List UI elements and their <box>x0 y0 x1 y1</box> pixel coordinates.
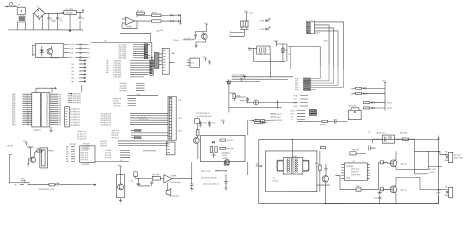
VCC arrow <box>382 80 387 85</box>
svg-text:SW: SW <box>21 178 24 180</box>
svg-text:VCC: VCC <box>220 120 225 122</box>
wire: gate feed vertical <box>378 162 389 189</box>
resistor R31 row <box>220 139 234 142</box>
wire: left loop <box>9 154 30 183</box>
svg-text:PWR LED: PWR LED <box>240 100 249 102</box>
svg-text:LM358: LM358 <box>126 26 132 28</box>
svg-text:P16: P16 <box>294 95 297 97</box>
oscillator box Y1 <box>248 46 270 61</box>
svg-text:G0 RD0: G0 RD0 <box>69 144 76 146</box>
svg-text:.1u: .1u <box>59 21 62 23</box>
svg-text:R34: R34 <box>315 163 318 165</box>
svg-text:SNUB C14: SNUB C14 <box>376 132 385 134</box>
capacitor C18 <box>224 174 227 190</box>
transformer T2 <box>273 139 309 183</box>
junction marks Q2 <box>240 29 249 33</box>
resistor R6 <box>282 48 291 56</box>
diode D2 <box>171 14 178 16</box>
svg-text:N5: N5 <box>106 72 108 74</box>
svg-text:12M: 12M <box>248 50 252 52</box>
wire: long row to relay coil <box>297 120 347 122</box>
optocoupler U3 <box>32 43 63 59</box>
text block inside sensor box <box>221 153 229 160</box>
svg-text:C9: C9 <box>288 54 290 56</box>
net label rows block E with bus to connector <box>100 112 168 126</box>
svg-text:F1: F1 <box>18 4 20 6</box>
net rows below sensor box <box>201 170 227 185</box>
svg-text:R39: R39 <box>356 186 359 188</box>
resistor R1 <box>137 10 145 17</box>
svg-text:VREF GND: VREF GND <box>351 174 361 176</box>
svg-text:C10: C10 <box>203 122 206 124</box>
svg-text:LED1: LED1 <box>260 20 265 22</box>
MOSFET Q8 <box>382 177 406 203</box>
svg-text:R32 10k: R32 10k <box>226 148 233 150</box>
wire: osc bottom <box>253 54 285 77</box>
svg-text:IRFZ44: IRFZ44 <box>400 190 406 192</box>
svg-text:PWM: PWM <box>346 178 351 180</box>
wire: bridge left vertex <box>33 12 34 14</box>
contact row <box>249 119 270 125</box>
svg-text:BL: BL <box>121 160 123 162</box>
row: R10 + D10 <box>363 101 391 104</box>
ground <box>179 23 182 25</box>
connector J5 <box>40 148 54 168</box>
wire: bundle from connector <box>314 22 343 70</box>
wire: bridge bottom to rail <box>38 19 40 21</box>
capacitor C4 <box>194 35 197 39</box>
wire <box>161 15 171 21</box>
label: DC input <box>428 167 442 174</box>
svg-text:K2: K2 <box>351 94 353 96</box>
capacitor C13 <box>369 146 376 151</box>
svg-text:T0: T0 <box>290 116 292 118</box>
svg-text:INT1: INT1 <box>290 113 294 115</box>
wire: enclosure top edge <box>120 33 151 42</box>
wires into connector J2 <box>147 45 175 65</box>
svg-text:AT89C51: AT89C51 <box>33 129 41 132</box>
resistor R32 row <box>220 147 234 150</box>
net label rows block H <box>105 150 156 159</box>
wire: bracket <box>196 27 207 35</box>
wire: bundle bends to pin rows <box>291 47 344 90</box>
MCU left pins <box>22 94 31 124</box>
wire: crystal to XTAL pins <box>288 40 328 66</box>
svg-text:LM386: LM386 <box>170 175 176 177</box>
resistor R35b top <box>320 147 325 149</box>
fuse holder box <box>17 7 25 14</box>
svg-text:VCC: VCC <box>28 146 33 148</box>
wire: bottom rail <box>324 196 439 203</box>
svg-text:T3: T3 <box>368 132 370 134</box>
svg-text:RV1: RV1 <box>191 63 195 65</box>
svg-text:17: 17 <box>27 124 29 126</box>
VCC arrow <box>274 40 279 44</box>
svg-text:AUDIO AMP: AUDIO AMP <box>170 181 181 184</box>
resistor R37 gate <box>380 161 383 164</box>
MOSFET Q7 <box>382 151 406 169</box>
wire: bridge right leg <box>42 16 44 29</box>
svg-text:E3 RB3 K3: E3 RB3 K3 <box>70 117 79 119</box>
wire: op-amp feedback loop <box>122 19 137 29</box>
node box N1 <box>195 119 200 124</box>
ground: MOSFET source <box>378 191 382 195</box>
terminal J7 <box>436 186 452 198</box>
VCC arrow bottom-left <box>6 141 34 149</box>
resistor R3 <box>152 20 164 33</box>
connector J1 <box>307 21 321 34</box>
svg-text:C13: C13 <box>372 148 375 150</box>
wire: vertical junction <box>277 100 279 109</box>
row: R11 + D11 <box>363 107 391 110</box>
MCU pin rows upper <box>295 78 311 91</box>
wire: amp input row <box>136 178 153 180</box>
net label rows M0-M6 <box>66 147 75 163</box>
svg-text:BAT-: BAT- <box>436 191 440 194</box>
svg-text:TH SENSOR OUT: TH SENSOR OUT <box>196 116 212 118</box>
resistor R2 <box>152 12 162 16</box>
svg-text:C6: C6 <box>130 181 132 183</box>
svg-text:D6 DTR0: D6 DTR0 <box>118 58 126 60</box>
capacitor C2 <box>56 13 62 30</box>
svg-text:C11: C11 <box>212 122 215 124</box>
svg-text:DC-12V: DC-12V <box>429 169 436 171</box>
svg-text:COMP IN: COMP IN <box>351 171 360 173</box>
row: R9 + D9 <box>351 92 386 95</box>
svg-text:U1 7805: U1 7805 <box>66 9 73 11</box>
capacitor C17 at output <box>190 162 194 191</box>
transistor Q9 <box>193 136 199 144</box>
svg-text:AC OUT: AC OUT <box>454 154 462 157</box>
svg-text:K1: K1 <box>351 88 353 90</box>
wire: transformer leads <box>277 139 309 170</box>
resistor R36 top <box>400 132 409 140</box>
MCU left pin labels <box>12 94 17 126</box>
resistor R38 gate <box>380 188 383 191</box>
resistor R22 stub <box>21 178 25 182</box>
svg-text:S1: S1 <box>88 57 90 59</box>
svg-text:POWER SW 1A 5V: POWER SW 1A 5V <box>38 188 55 191</box>
svg-text:JP2: JP2 <box>178 118 181 120</box>
svg-text:LCD1602: LCD1602 <box>81 164 89 166</box>
resistor R25 <box>152 174 160 180</box>
svg-text:VCC: VCC <box>23 141 28 143</box>
VCC arrow <box>204 23 209 27</box>
svg-text:CON4: CON4 <box>315 33 320 35</box>
MCU U5 body <box>32 93 50 132</box>
wire: vertical mid <box>247 120 249 175</box>
svg-text:220V 50Hz: 220V 50Hz <box>454 158 463 160</box>
J4 label rows <box>70 109 79 127</box>
wire: backlight row BL <box>95 160 129 162</box>
svg-text:KEY IN 5: KEY IN 5 <box>80 159 88 161</box>
svg-text:B12 S2: B12 S2 <box>100 146 106 148</box>
capacitor C3 <box>79 9 85 20</box>
svg-text:1000u: 1000u <box>51 21 56 23</box>
ground <box>119 198 122 203</box>
row: resistor + diode right of box top <box>255 119 268 123</box>
VCC arrow <box>117 165 122 170</box>
capacitor C6 <box>137 178 150 186</box>
svg-text:OUT2 N11 SENSE: OUT2 N11 SENSE <box>201 177 218 179</box>
wire: bottom rail <box>8 29 83 30</box>
svg-text:R2 1k: R2 1k <box>152 12 157 14</box>
ground <box>27 163 30 166</box>
resistor R29 <box>210 146 212 152</box>
svg-text:JP1: JP1 <box>178 100 181 102</box>
wire <box>197 143 199 159</box>
svg-text:P15: P15 <box>295 89 298 91</box>
svg-text:U8: U8 <box>352 161 354 163</box>
svg-text:DB9: DB9 <box>171 53 175 55</box>
svg-text:VCC: VCC <box>274 40 279 42</box>
svg-text:GND: GND <box>69 53 74 55</box>
wire: right vertical <box>384 86 386 111</box>
connector J3b lower segment <box>166 142 175 155</box>
svg-text:LM7805: LM7805 <box>66 12 73 14</box>
svg-text:AGND: AGND <box>277 119 283 122</box>
capacitor C16 <box>150 182 153 186</box>
inner left box <box>266 151 317 192</box>
svg-text:A1: A1 <box>79 58 81 61</box>
capacitor C1 <box>47 13 56 30</box>
diode D13 <box>212 141 215 143</box>
svg-text:TXD A11: TXD A11 <box>113 104 120 107</box>
rows above connector J4 <box>68 93 81 105</box>
resistor R7 <box>322 120 328 122</box>
wire: routing right <box>396 151 445 189</box>
svg-text:R31 4k7: R31 4k7 <box>226 140 233 142</box>
regulator U1 7805 <box>62 9 76 15</box>
svg-text:R35 10k: R35 10k <box>352 149 359 151</box>
row: R8 + D8 <box>351 87 386 90</box>
ground <box>195 39 206 47</box>
svg-text:E0 RB0 K0: E0 RB0 K0 <box>70 109 79 111</box>
svg-text:CON-A: CON-A <box>173 39 180 42</box>
top snubber box <box>376 132 394 143</box>
label rows <box>196 113 212 118</box>
svg-text:F3 RC3 L3: F3 RC3 L3 <box>77 139 86 141</box>
VCC arrow <box>244 11 249 14</box>
net label rows block A <box>118 44 150 60</box>
transistor Q5 at box bottom <box>224 159 229 165</box>
transistor Q4 with loop <box>116 170 124 198</box>
resistor R35 above IC <box>350 149 366 155</box>
wire: ALE long row <box>127 93 158 96</box>
ground <box>227 79 230 85</box>
svg-text:R1 10k: R1 10k <box>137 10 143 12</box>
svg-text:R36 220: R36 220 <box>400 132 407 134</box>
svg-text:R25 10k: R25 10k <box>152 174 159 176</box>
crystal can Y2 <box>348 106 361 120</box>
MCU right pin labels <box>59 93 62 126</box>
net label rows block G to connector <box>100 141 168 148</box>
svg-text:LED2: LED2 <box>260 29 265 31</box>
op-amp U6 <box>160 175 191 184</box>
svg-text:SPK1: SPK1 <box>387 102 392 104</box>
diode D4 <box>171 20 178 22</box>
svg-text:AIN0: AIN0 <box>277 113 281 116</box>
resistor R5 <box>240 21 248 30</box>
VCC arrow <box>28 146 33 151</box>
svg-text:SPK2: SPK2 <box>387 108 392 110</box>
LED D7 <box>260 27 271 31</box>
wire: 5V output <box>76 12 80 30</box>
svg-text:E6 RB6 K6: E6 RB6 K6 <box>70 125 79 127</box>
svg-text:X3 K13: X3 K13 <box>105 157 111 159</box>
svg-text:EE-16: EE-16 <box>273 180 278 182</box>
connector J3 <box>168 96 181 140</box>
LED D6 <box>260 18 271 22</box>
svg-text:VR1: VR1 <box>69 57 73 59</box>
svg-text:B5: B5 <box>72 78 74 80</box>
wire: long zero-cross wire <box>91 41 153 59</box>
connector J2 <box>162 39 180 74</box>
transistor Q3 <box>30 151 43 163</box>
resistor R39 bottom <box>335 175 378 191</box>
svg-text:AC-N: AC-N <box>69 47 74 50</box>
svg-text:VCC: VCC <box>242 75 247 77</box>
svg-text:OUT3 N12 REF IN: OUT3 N12 REF IN <box>203 184 219 186</box>
svg-text:M6: M6 <box>66 161 69 163</box>
jumper block rows <box>309 109 326 126</box>
svg-text:E5 RB5 K5: E5 RB5 K5 <box>70 122 79 124</box>
outer box <box>259 139 439 203</box>
svg-text:K5 AD5 D15: K5 AD5 D15 <box>100 123 110 126</box>
ground top-right <box>437 136 440 141</box>
svg-text:JP SEL: JP SEL <box>320 124 326 126</box>
resistor R41 <box>197 130 199 136</box>
wire: right of oscillator <box>276 44 287 61</box>
resistor R40 <box>224 162 229 165</box>
net rows mid <box>270 113 283 122</box>
svg-text:24: 24 <box>46 124 48 126</box>
terminal J6 <box>445 151 464 163</box>
svg-text:MOC3041: MOC3041 <box>50 57 59 59</box>
transformer T1 windings <box>19 16 26 21</box>
wire: inner box bottom to right <box>317 185 330 192</box>
capacitor C5 <box>335 119 340 124</box>
wire: bus lines <box>232 77 293 79</box>
diode D3 <box>178 14 181 16</box>
svg-text:B4: B4 <box>72 74 74 76</box>
rows below J4 <box>77 131 86 141</box>
svg-text:7.2AH: 7.2AH <box>429 171 435 174</box>
keypad connector box KEY1 <box>80 146 95 166</box>
wire: two lines left <box>230 32 245 36</box>
resistor R34 vertical <box>315 151 321 185</box>
svg-text:P17: P17 <box>294 99 297 101</box>
svg-text:C24 RA4: C24 RA4 <box>73 101 81 104</box>
wire: top row <box>372 139 414 151</box>
svg-text:A3 WR3: A3 WR3 <box>120 89 127 92</box>
capacitor C7 <box>246 97 249 103</box>
wire: vertical <box>229 84 282 112</box>
opto output rows <box>64 43 90 59</box>
ground: MCU <box>49 127 52 133</box>
svg-text:B3: B3 <box>72 71 74 73</box>
diode D5 <box>178 20 181 22</box>
svg-text:EE16: EE16 <box>292 156 297 158</box>
svg-text:R33: R33 <box>255 119 258 121</box>
capacitor C15 bottom <box>374 195 381 203</box>
svg-text:B6: B6 <box>72 81 74 83</box>
svg-text:SPK 8R: SPK 8R <box>172 196 179 198</box>
net label rows block C <box>120 82 145 92</box>
VCC arrow <box>242 75 247 79</box>
svg-text:INT0: INT0 <box>290 110 294 112</box>
resistor R4 <box>240 13 253 27</box>
wire: diode join <box>179 15 181 23</box>
bridge rectifier D1 <box>34 6 45 19</box>
svg-text:OSC: OSC <box>324 40 329 42</box>
net label rows block D <box>113 97 136 107</box>
wire: op-amp output row <box>135 15 152 21</box>
transformer pedestal <box>17 22 25 29</box>
terminal: battery tap <box>255 164 262 167</box>
net label rows block F <box>111 129 168 139</box>
svg-text:D1: D1 <box>37 6 39 8</box>
wire: DC top rail <box>45 12 64 14</box>
speaker LS1 <box>166 183 179 198</box>
left stub rows column <box>72 58 87 84</box>
svg-text:WR C13: WR C13 <box>111 137 118 139</box>
LED D12 <box>240 100 298 105</box>
wire: MCU top bracket <box>36 87 57 92</box>
svg-text:OSC OUT: OSC OUT <box>351 169 360 171</box>
svg-text:VCC: VCC <box>204 23 209 25</box>
op-amp U2A <box>126 17 135 28</box>
wire <box>197 123 199 129</box>
svg-text:VCC: VCC <box>202 57 207 59</box>
ground: supply <box>69 30 72 33</box>
wire: bridge left leg <box>32 14 34 30</box>
svg-text:C8: C8 <box>284 50 286 52</box>
VCC arrow <box>220 120 225 124</box>
transistor Q1 <box>183 33 208 40</box>
svg-text:AC DET: AC DET <box>184 37 192 40</box>
pot RV1 <box>187 58 199 67</box>
narrow driver U4 <box>154 53 159 69</box>
svg-text:G1: G1 <box>88 53 91 55</box>
svg-text:VCC: VCC <box>244 11 249 13</box>
resistor R21 <box>37 148 42 152</box>
ground <box>208 60 211 65</box>
svg-text:IRFZ44: IRFZ44 <box>400 164 406 166</box>
svg-text:TH SENSOR IN: TH SENSOR IN <box>196 113 210 115</box>
resistor R27 node <box>227 81 230 84</box>
svg-text:L1: L1 <box>88 44 90 46</box>
sensor box U7 <box>201 135 245 161</box>
svg-text:RXD: RXD <box>293 106 298 108</box>
svg-text:B1: B1 <box>72 64 74 66</box>
svg-text:X2 R10: X2 R10 <box>6 145 12 147</box>
resistor R23 <box>130 172 137 183</box>
wire: row at y81.4 <box>226 80 260 82</box>
wire: vertical from above <box>81 85 83 93</box>
svg-text:SG3525: SG3525 <box>346 166 353 168</box>
svg-text:B2: B2 <box>72 67 74 69</box>
svg-text:P27 RD7: P27 RD7 <box>114 77 122 79</box>
svg-text:VCC: VCC <box>117 165 122 167</box>
resistor R30 <box>211 146 217 158</box>
capacitor C12 <box>324 164 327 176</box>
svg-text:T1: T1 <box>290 119 292 121</box>
svg-text:N1: N1 <box>88 48 90 50</box>
transistor Q6 <box>322 176 328 204</box>
svg-text:BUZZER: BUZZER <box>348 106 356 108</box>
VCC arrow <box>240 79 242 82</box>
